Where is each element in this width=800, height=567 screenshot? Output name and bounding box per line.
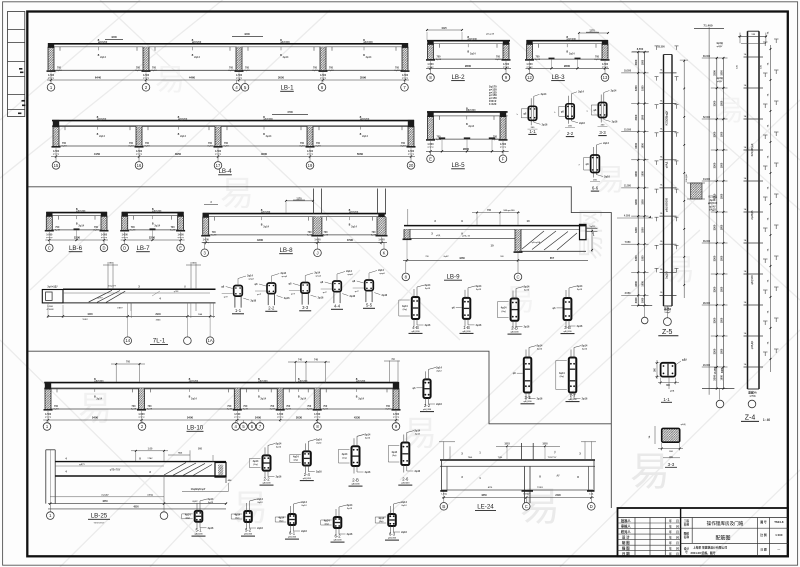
svg-text:名称: 名称 [684,522,690,526]
svg-text:φЛМ: φЛМ [174,291,179,293]
title block [618,508,789,556]
section D2-5 [375,501,407,540]
svg-text:4300: 4300 [257,238,264,242]
section E1 below Z-5 [655,359,688,403]
svg-text:φ×φ×φ: φ×φ×φ [53,152,60,155]
svg-text:K: K [383,250,386,255]
svg-text:φ8@200: φ8@200 [468,38,478,41]
svg-text:4φУД: 4φУД [716,42,723,45]
Z-5 right dim [683,60,685,299]
svg-text:3300: 3300 [634,297,638,303]
svg-text:E: E [429,156,432,161]
svg-text:月: 月 [675,547,679,551]
svg-text:1800: 1800 [642,227,645,233]
svg-text:2φ14: 2φ14 [247,275,253,278]
svg-text:ТАБЛ: ТАБЛ [82,318,88,321]
svg-text:3790: 3790 [347,238,354,242]
svg-text:φЯД: φЯД [436,235,441,237]
svg-text:(2φ): (2φ) [392,454,397,457]
svg-text:易: 易 [220,175,254,213]
svg-text:月: 月 [675,535,679,539]
svg-text:2φ18: 2φ18 [147,408,153,411]
LB-4 top rebar dim [272,114,308,116]
LB-3 top dim [579,32,608,34]
svg-text:3300: 3300 [634,255,638,261]
svg-text:2φ16: 2φ16 [301,530,307,533]
svg-text:4φУД: 4φУД [716,77,723,80]
svg-text:2φ18: 2φ18 [55,229,61,232]
svg-text:2φ14: 2φ14 [316,438,322,441]
svg-text:1-500: 1-500 [47,306,53,308]
LB-8 left top dim [204,204,218,206]
svg-text:1: 40: 1: 40 [763,418,770,422]
svg-text:3-3: 3-3 [599,130,606,135]
beam LB-8 elevation [201,208,388,257]
svg-text:2-4: 2-4 [304,472,311,477]
svg-text:2φ12: 2φ12 [415,433,421,436]
svg-text:(2φ): (2φ) [501,310,506,313]
svg-text:φ×φ×φ: φ×φ×φ [393,415,400,418]
svg-text:LB-6: LB-6 [69,245,83,252]
divider upper [29,187,612,508]
svg-text:3300: 3300 [634,59,638,65]
svg-text:ТАБ: ТАБ [468,456,473,459]
svg-text:2φ18: 2φ18 [299,145,305,148]
svg-text:4φ14: 4φ14 [342,453,348,456]
Z-4 level extension line [708,27,710,395]
svg-text:15: 15 [54,163,59,168]
svg-text:2φ12: 2φ12 [365,436,371,439]
svg-text:2φДУА: 2φДУА [665,271,668,279]
svg-text:3050: 3050 [278,76,285,80]
svg-text:7-7: 7-7 [569,393,576,398]
svg-text:φ×Т: φ×Т [323,291,328,294]
svg-text:4360: 4360 [459,256,465,260]
svg-text:2φ18: 2φ18 [286,408,292,411]
section D1-1 [250,442,283,485]
svg-text:LB-1: LB-1 [280,85,294,92]
svg-text:2φ14: 2φ14 [351,226,357,229]
svg-text:φ8@200: φ8@200 [194,534,203,536]
svg-text:4φ14: 4φ14 [559,372,565,375]
svg-text:53.300: 53.300 [657,46,665,49]
divider lower [29,351,612,424]
svg-text:АТМАЖ: АТМАЖ [46,308,53,311]
svg-text:φ8@200: φ8@200 [351,484,360,486]
svg-text:60.400: 60.400 [703,55,711,58]
svg-text:1800: 1800 [720,70,723,76]
svg-text:2φ16: 2φ16 [381,294,387,297]
svg-text:2φ16: 2φ16 [401,531,407,534]
svg-text:2φ16: 2φ16 [579,122,585,125]
svg-text:3300: 3300 [634,85,638,91]
svg-text:2φ18: 2φ18 [53,408,59,411]
section B3 [553,285,583,334]
svg-text:φУДУ: φУДУ [717,80,723,83]
svg-text:2φ16: 2φ16 [476,324,482,327]
svg-text:2φ16: 2φ16 [284,297,290,300]
svg-text:2φ12: 2φ12 [401,504,407,507]
svg-text:2φ14: 2φ14 [100,56,106,59]
svg-text:2φ16: 2φ16 [425,324,431,327]
svg-text:LB-3: LB-3 [551,74,565,81]
svg-text:2φ18: 2φ18 [244,69,250,72]
svg-text:φ8@200: φ8@200 [178,118,188,121]
svg-text:易网: 易网 [576,208,606,260]
svg-text:2φ14: 2φ14 [346,270,352,273]
svg-text:C: C [525,504,528,509]
svg-text:LB-10: LB-10 [187,425,204,432]
svg-text:19: 19 [308,163,313,168]
svg-text:φ8@200: φ8@200 [97,118,107,121]
svg-text:φ×φ2: φ×φ2 [248,278,254,281]
svg-text:2φ14: 2φ14 [347,504,353,507]
svg-text:2φ14: 2φ14 [578,91,584,94]
svg-text:2φ12: 2φ12 [476,288,482,291]
LB-9 top dims [407,209,409,225]
svg-text:2φ12: 2φ12 [425,287,431,290]
svg-text:2200: 2200 [149,236,156,240]
svg-text:易: 易 [155,64,185,97]
svg-text:3-3: 3-3 [302,305,309,310]
svg-text:14: 14 [125,338,130,343]
svg-text:1800: 1800 [642,85,645,91]
svg-text:4φ14: 4φ14 [391,451,397,454]
svg-text:2φ16: 2φ16 [347,533,353,536]
svg-text:年: 年 [669,547,672,551]
svg-text:φДТУ: φДТУ [79,463,85,466]
svg-text:比 例: 比 例 [760,533,767,537]
svg-text:3300: 3300 [634,280,638,286]
svg-text:4-4: 4-4 [334,304,341,309]
section 6-6 [579,142,610,191]
svg-text:2φ12: 2φ12 [582,348,588,351]
LB-24 dim lines below [442,497,594,499]
svg-text:740: 740 [298,359,303,362]
svg-text:5-5: 5-5 [366,303,373,308]
Z-4 bubbles [716,400,724,408]
svg-text:10: 10 [490,244,494,248]
svg-text:(2φ): (2φ) [403,308,408,311]
svg-text:(2φ): (2φ) [342,456,347,459]
svg-text:φ8@200: φ8@200 [510,332,519,334]
svg-text:φ8+φ18: φ8+φ18 [486,33,495,36]
svg-text:φ8@200: φ8@200 [288,537,297,539]
svg-text:—: — [777,547,780,551]
svg-text:2φ14: 2φ14 [414,430,420,433]
beam LB-6 elevation [45,207,109,252]
svg-text:УАДО: УАДО [709,209,716,212]
svg-text:1805: 1805 [542,443,548,446]
svg-text:4.550: 4.550 [624,214,631,217]
svg-text:易: 易 [403,415,437,453]
svg-text:φ×φ2: φ×φ2 [316,275,322,278]
svg-text:2φ14: 2φ14 [314,272,320,275]
svg-text:1600: 1600 [87,313,93,316]
svg-text:2φ14: 2φ14 [263,226,269,229]
svg-text:2φ16: 2φ16 [537,398,543,401]
svg-text:2φ14: 2φ14 [154,225,160,228]
section 1-1 [517,93,548,134]
svg-text:3300: 3300 [713,224,717,230]
svg-text:2-6: 2-6 [402,477,409,482]
beam LB-5 elevation [426,106,509,169]
svg-text:φ8@200: φ8@200 [152,210,162,213]
svg-text:φ8@200: φ8@200 [258,380,268,383]
svg-text:φ×ТУ: φ×ТУ [97,297,103,300]
section D2-1 [182,498,214,536]
svg-text:7L-1: 7L-1 [153,337,166,344]
svg-text:2φ14: 2φ14 [191,397,197,400]
LB-24 upper dims [443,441,445,460]
svg-text:3596: 3596 [360,76,367,80]
svg-text:2φ14: 2φ14 [96,397,102,400]
svg-text:φУДУ: φУДУ [717,45,723,48]
svg-text:(2φ): (2φ) [279,520,284,523]
svg-text:D: D [123,245,126,250]
LB-10 top dims [115,364,117,383]
svg-text:2290: 2290 [555,494,561,497]
svg-text:校对人: 校对人 [621,529,632,534]
svg-text:АД: АД [391,358,395,361]
svg-text:ТОБУ: ТОБУ [537,487,544,489]
svg-text:3480: 3480 [721,367,724,373]
svg-text:设 计: 设 计 [622,534,630,539]
svg-text:年: 年 [669,519,672,523]
joint detail C3 3-3 [288,272,324,311]
svg-text:2φ16: 2φ16 [524,326,530,329]
svg-text:2φ18: 2φ18 [436,58,442,61]
svg-text:4φ14: 4φ14 [324,520,330,523]
svg-text:1800: 1800 [720,131,723,137]
column Z-5 [617,46,688,337]
svg-text:3300: 3300 [713,131,717,137]
svg-text:2φ18: 2φ18 [223,145,229,148]
beam LB-4 elevation [51,115,416,175]
section E2 dark [648,423,686,467]
section D1-4 [388,430,421,486]
svg-text:20.400: 20.400 [703,364,711,367]
section 3-3 [587,89,618,135]
svg-text:1800: 1800 [720,100,723,106]
section D2-4 [321,504,353,542]
svg-text:φ8@200: φ8@200 [356,380,366,383]
svg-text:1800: 1800 [642,255,645,261]
svg-text:φ8@200: φ8@200 [76,210,86,213]
svg-text:1:100: 1:100 [775,533,783,537]
svg-text:3-3: 3-3 [524,395,531,400]
svg-text:1803: 1803 [504,443,510,446]
beam LB-1 elevation [47,38,410,91]
svg-text:LB-7: LB-7 [136,245,150,252]
svg-text:2φ14: 2φ14 [180,135,186,138]
svg-text:1ТАУ: 1ТАУ [147,457,153,460]
svg-text:E: E [179,245,182,250]
svg-text:φ8@200: φ8@200 [568,399,577,401]
svg-text:2φ14: 2φ14 [470,53,476,56]
svg-text:857: 857 [550,256,555,260]
svg-text:(2φ): (2φ) [294,459,299,462]
svg-text:2φ16: 2φ16 [318,297,324,300]
LB-5 mid bearings [439,137,445,139]
svg-text:易: 易 [630,450,670,494]
svg-text:φ8@200: φ8@200 [262,483,271,485]
beam LB-2 elevation [426,35,511,81]
svg-text:1800: 1800 [720,255,723,261]
svg-text:2φ16: 2φ16 [250,300,256,303]
7L-1 bent bars [89,290,126,302]
svg-text:2φ14: 2φ14 [260,397,266,400]
svg-text:2800: 2800 [465,64,472,68]
svg-text:2φ14: 2φ14 [541,93,547,96]
svg-text:4600: 4600 [261,152,268,156]
section right of LB-10 [412,366,442,411]
svg-text:描 图: 描 图 [622,546,630,551]
svg-text:2-2: 2-2 [263,477,270,482]
svg-text:LB-5: LB-5 [451,162,465,169]
svg-text:6-1: 6-1 [289,531,296,536]
svg-text:2φ12: 2φ12 [537,348,543,351]
svg-text:φ×Т: φ×Т [355,290,360,293]
svg-text:5400: 5400 [187,416,194,420]
LB-25 right end block [215,463,226,478]
svg-text:1800: 1800 [720,224,723,230]
svg-text:6-6: 6-6 [592,186,599,191]
svg-text:2φ14: 2φ14 [524,286,530,289]
svg-text:4850: 4850 [481,494,487,497]
svg-text:3950: 3950 [175,152,182,156]
svg-text:ТОУ.ТУУ: ТОУ.ТУУ [548,457,557,459]
svg-text:3300: 3300 [713,70,717,76]
svg-text:φУА: φУА [670,390,675,393]
7L-1 mid leader [152,291,160,296]
svg-text:φ8@200: φ8@200 [360,118,370,121]
svg-text:φ8@100: φ8@100 [751,275,754,285]
svg-text:12: 12 [527,75,532,80]
svg-text:4φ14: 4φ14 [293,455,299,458]
svg-text:易: 易 [505,284,535,317]
svg-text:φ8@200: φ8@200 [388,538,397,540]
svg-text:2φ14: 2φ14 [436,366,442,369]
svg-text:2φ14: 2φ14 [378,269,384,272]
LB-8 columns above beam [312,189,314,214]
svg-text:10: 10 [526,219,530,223]
svg-text:图 号: 图 号 [760,520,767,524]
svg-text:2φ14: 2φ14 [611,89,617,92]
svg-text:3300: 3300 [634,170,638,176]
svg-text:2-2: 2-2 [268,306,275,311]
LB-25 dims above right [135,450,137,461]
svg-text:3.550: 3.550 [625,293,631,295]
svg-text:日 期: 日 期 [622,551,630,556]
svg-text:年: 年 [669,535,672,539]
svg-text:J: J [316,250,318,255]
svg-text:2φ18: 2φ18 [323,408,329,411]
svg-text:1800: 1800 [642,281,645,287]
svg-text:φ8@200: φ8@200 [298,380,308,383]
svg-text:2φ14: 2φ14 [208,498,214,501]
svg-text:φ8@200: φ8@200 [261,211,271,214]
svg-text:ЎАТУ: ЎАТУ [117,307,123,310]
Z-5 top level mark [632,51,649,53]
svg-text:44.400: 44.400 [703,178,711,181]
svg-text:5-1: 5-1 [195,528,202,533]
svg-text:φ8@200: φ8@200 [303,478,312,480]
svg-text:4200: 4200 [111,35,117,39]
svg-text:2φ14: 2φ14 [476,285,482,288]
svg-text:71.400: 71.400 [703,24,713,28]
svg-text:LB-25: LB-25 [91,512,108,519]
svg-text:1800: 1800 [720,193,723,199]
svg-text:8.550: 8.550 [637,47,644,51]
svg-text:C: C [48,245,51,250]
svg-text:2φ14: 2φ14 [280,272,286,275]
svg-text:3300: 3300 [713,100,717,106]
svg-text:2φ18: 2φ18 [228,69,234,72]
svg-text:4150: 4150 [94,152,101,156]
svg-text:2φ14: 2φ14 [99,135,105,138]
svg-text:2φ14: 2φ14 [78,225,84,228]
svg-text:2-B: 2-B [352,478,359,483]
LB-3 mid bearings [549,58,555,60]
svg-text:3300: 3300 [713,255,717,261]
svg-text:2φ16: 2φ16 [208,527,214,530]
section B1 [452,285,482,334]
svg-text:2φ18: 2φ18 [211,234,217,237]
svg-text:2004-08 结施。图号: 2004-08 结施。图号 [690,551,715,555]
svg-text:基础Д: 基础Д [663,307,671,311]
svg-text:2φ14: 2φ14 [366,56,372,59]
section B5 [556,345,588,402]
svg-text:20φ×УУ: 20φ×УУ [108,284,117,287]
svg-text:(2φ): (2φ) [325,523,330,526]
svg-text:2φ16: 2φ16 [316,471,322,474]
svg-text:19.550: 19.550 [624,71,632,73]
svg-text:图纸: 图纸 [684,531,690,535]
svg-text:基础УА: 基础УА [747,391,757,395]
svg-text:φ8@200: φ8@200 [363,41,373,44]
svg-text:φДА: φДА [682,359,687,362]
svg-text:1.00: 1.00 [148,447,153,450]
svg-text:上海某 某建筑设计有限公司: 上海某 某建筑设计有限公司 [693,546,728,550]
svg-text:φУАДО: φУАДО [751,341,754,350]
svg-text:3300: 3300 [634,227,638,233]
svg-text:φ8@200: φ8@200 [466,109,476,112]
left title strip [8,12,25,117]
svg-text:KZ3(2B)φДУ: KZ3(2B)φДУ [665,110,668,125]
svg-text:7.550: 7.550 [625,242,631,244]
svg-text:TS04-8: TS04-8 [774,520,784,524]
svg-text:2φ12: 2φ12 [301,504,307,507]
beam LB-25 elevation [46,447,232,524]
svg-text:6440: 6440 [95,76,102,80]
joint detail C2 2-2 [255,272,291,311]
section D1-3 [339,433,372,486]
svg-text:2φ18: 2φ18 [144,145,150,148]
svg-text:φ8@200: φ8@200 [567,38,577,41]
svg-text:4φ14: 4φ14 [278,517,284,520]
svg-text:2φАДУ: 2φАДУ [101,493,109,496]
svg-text:1800: 1800 [642,114,645,120]
joint detail C1 1-1 [221,275,257,314]
svg-text:φ×φ2: φ×φ2 [282,275,288,278]
svg-text:φ8@200: φ8@200 [563,331,572,333]
svg-text:2φ18: 2φ18 [307,408,313,411]
svg-text:φ×φ×φ: φ×φ×φ [136,152,143,155]
svg-text:φ8@200: φ8@200 [263,118,273,121]
svg-text:1-АУД: 1-АУД [441,492,447,495]
svg-text:φ8@200: φ8@200 [423,409,432,411]
